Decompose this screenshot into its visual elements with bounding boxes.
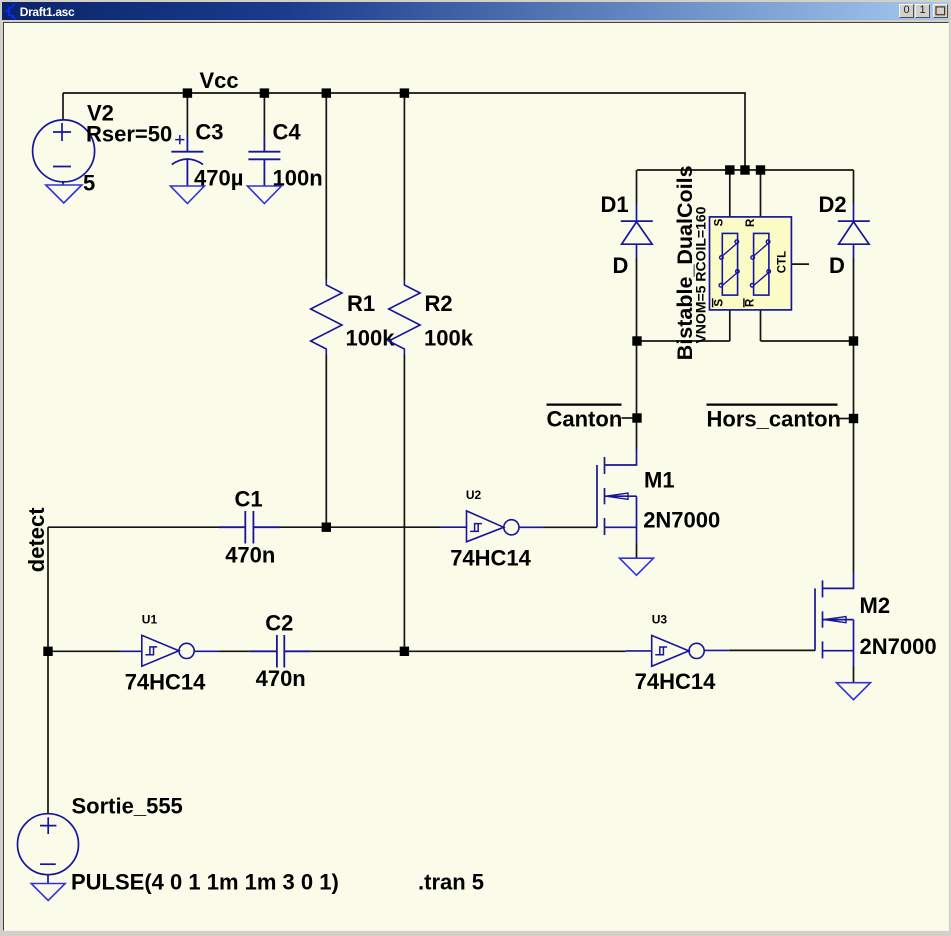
svg-text:S: S — [713, 299, 725, 307]
svg-text:Vcc: Vcc — [200, 68, 239, 93]
junction C4/Vcc — [260, 88, 269, 97]
wire node to U1 input — [48, 650, 120, 652]
relay Bistable_DualCoils — [710, 217, 792, 310]
wire C4 top stem — [263, 93, 265, 136]
svg-text:470n: 470n — [256, 666, 306, 691]
capacitor C1 — [219, 511, 280, 544]
svg-text:100k: 100k — [424, 326, 474, 351]
transistor M2 (2N7000 NMOS) — [815, 573, 854, 667]
coil S winding — [719, 233, 739, 295]
wire U2 output to M1 gate — [544, 526, 598, 528]
junction D1/S-bar — [632, 336, 641, 345]
wire U1 output to C2 — [219, 650, 250, 652]
voltage source V1 (PULSE) — [18, 814, 79, 884]
wire D2 anode down to M2 drain — [853, 258, 855, 573]
capacitor C2 — [250, 635, 311, 668]
junction R2/Vcc — [400, 88, 409, 97]
junction C3/Vcc — [183, 88, 192, 97]
wire D1 anode down to M1 drain — [636, 258, 638, 449]
inverter U2 (74HC14) — [440, 511, 544, 542]
svg-text:C1: C1 — [235, 487, 263, 512]
svg-text:C3: C3 — [195, 120, 223, 145]
wire M2 source to ground — [853, 666, 855, 683]
inverter U3 (74HC14) — [626, 635, 730, 666]
ground under C4 — [247, 186, 281, 204]
wire relay top row — [637, 169, 854, 171]
resistor R1 — [311, 280, 342, 355]
svg-text:M2: M2 — [860, 593, 891, 618]
svg-text:VNOM=5 RCOIL=160: VNOM=5 RCOIL=160 — [693, 206, 709, 343]
svg-text:74HC14: 74HC14 — [125, 669, 206, 694]
node Hors_canton attach square — [849, 414, 858, 423]
wire C2 to U3 input — [311, 650, 626, 652]
resistor R2 — [389, 280, 420, 355]
svg-text:R2: R2 — [425, 291, 453, 316]
diode D1 — [621, 203, 653, 258]
window icon — [2, 1, 20, 20]
svg-text:100k: 100k — [346, 326, 396, 351]
ground under M2 — [837, 683, 871, 700]
svg-text:2N7000: 2N7000 — [860, 634, 937, 659]
svg-text:U2: U2 — [466, 488, 482, 502]
wire relay pin S to Vcc row — [729, 170, 731, 233]
svg-text:S: S — [713, 218, 725, 226]
svg-text:D: D — [613, 253, 629, 278]
svg-text:74HC14: 74HC14 — [450, 546, 531, 571]
wire detect vertical down to U1 row — [47, 527, 49, 651]
node Hors_canton (overline + label) — [707, 405, 841, 432]
svg-text:D1: D1 — [601, 192, 629, 217]
wire Canton label tick — [622, 417, 634, 419]
capacitor C4 — [248, 136, 280, 186]
wire detect horizontal to C1 — [48, 526, 219, 528]
wire M1 source to ground — [636, 543, 638, 559]
svg-text:R1: R1 — [347, 291, 375, 316]
junction Vcc drop on relay row — [740, 165, 749, 174]
svg-text:D2: D2 — [819, 192, 847, 217]
wire relay pin R-bar down — [760, 295, 762, 341]
svg-text:.tran 5: .tran 5 — [418, 869, 484, 894]
svg-text:CTL: CTL — [777, 251, 789, 273]
svg-text:R: R — [745, 298, 757, 307]
ground under V1 — [31, 884, 65, 901]
wire R-bar to D2 branch — [761, 340, 854, 342]
wire relay row to D2 cathode — [853, 170, 855, 203]
svg-text:5: 5 — [83, 171, 95, 196]
wire Vcc rail with corner down to relay row — [63, 93, 745, 170]
wire V2 top to Vcc rail — [62, 93, 64, 120]
svg-text:2N7000: 2N7000 — [643, 507, 720, 532]
svg-text:Canton: Canton — [547, 406, 623, 431]
svg-text:74HC14: 74HC14 — [635, 669, 716, 694]
wire S-bar to D1 branch — [637, 340, 730, 342]
wire R2 bottom to C2 row — [403, 355, 405, 652]
junction R2 bottom / C2 row — [400, 647, 409, 656]
wire C3 top stem — [186, 93, 188, 136]
wire relay pin R to Vcc row — [760, 170, 762, 233]
pin label S-bar — [713, 298, 726, 307]
junction R1 bottom / C1 row — [322, 523, 331, 532]
wire relay row to D1 cathode — [636, 170, 638, 203]
wire C1 to U2 input — [280, 526, 440, 528]
junction R1/Vcc — [322, 88, 331, 97]
voltage source V2 — [33, 120, 95, 185]
svg-text:Hors_canton: Hors_canton — [707, 406, 841, 431]
node Canton (overline + label) — [547, 405, 623, 432]
svg-text:470n: 470n — [225, 543, 275, 568]
junction relay S pin row — [725, 165, 734, 174]
wire Vcc rail to R1 — [325, 93, 327, 280]
ground under V2 — [46, 185, 82, 203]
svg-text:D: D — [829, 253, 845, 278]
svg-text:Rser=50: Rser=50 — [86, 122, 172, 147]
wire U3 output to M2 gate — [729, 649, 815, 651]
svg-text:C2: C2 — [265, 610, 293, 635]
svg-text:detect: detect — [24, 507, 49, 572]
svg-text:R: R — [745, 218, 757, 227]
wire relay CTL stub — [791, 263, 809, 265]
wire R1 bottom to C1 row — [325, 355, 327, 528]
svg-text:M1: M1 — [644, 467, 675, 492]
junction relay R pin row — [756, 165, 765, 174]
svg-text:C4: C4 — [273, 120, 302, 145]
ground under C3 — [170, 186, 204, 204]
svg-text:U3: U3 — [652, 612, 668, 626]
coil R winding — [750, 233, 770, 295]
wire relay pin S-bar down — [729, 295, 731, 341]
svg-text:PULSE(4 0 1 1m 1m 3 0 1): PULSE(4 0 1 1m 1m 3 0 1) — [71, 869, 339, 894]
inverter U1 (74HC14) — [120, 635, 219, 666]
junction D2/R-bar — [849, 336, 858, 345]
wire Vcc rail to R2 — [403, 93, 405, 280]
svg-text:Sortie_555: Sortie_555 — [72, 793, 183, 818]
wire Hors_canton label tick — [836, 418, 849, 420]
transistor M1 (2N7000 NMOS) — [597, 449, 637, 543]
capacitor C3 (polarized) — [171, 135, 203, 186]
pin label R-bar — [744, 298, 757, 307]
ground under M1 — [620, 558, 654, 575]
svg-text:U1: U1 — [142, 612, 158, 626]
diode D2 — [838, 203, 870, 258]
node Canton attach square — [632, 413, 641, 422]
junction detect corner / U1 row — [43, 647, 52, 656]
wire U1 row down to V1 — [47, 651, 49, 814]
